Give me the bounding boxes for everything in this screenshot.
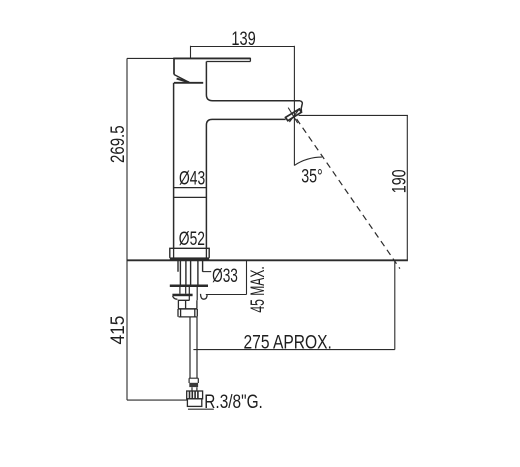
svg-text:45 MAX.: 45 MAX.	[247, 266, 269, 312]
supply pipe lines above washer	[191, 261, 198, 285]
stud lines below washer	[180, 287, 186, 294]
nipple upper block	[178, 300, 197, 309]
extension line 139 right / angle reference vertical	[293, 46, 295, 166]
flexible hose	[190, 317, 197, 378]
svg-text:269.5: 269.5	[106, 125, 128, 163]
spout tip step	[300, 101, 302, 112]
dimension 269.5 and 415 vertical line	[126, 58, 128, 400]
extension line 275 right	[394, 260, 396, 349]
water stream dashed line	[297, 119, 400, 269]
hose end nut skirt	[187, 399, 201, 407]
extension line 139 left	[190, 46, 192, 58]
35 degree angle arc	[294, 157, 322, 165]
hose collar	[189, 378, 198, 383]
hose lines below washer	[189, 287, 197, 300]
svg-text:Ø33: Ø33	[212, 265, 238, 287]
hose end nut upper (hatched)	[187, 391, 203, 399]
clamp bar left lip	[173, 296, 178, 299]
hose ferrule (hatched)	[189, 383, 198, 387]
svg-text:Ø52: Ø52	[179, 228, 205, 250]
svg-text:Ø43: Ø43	[179, 167, 205, 189]
column right edge and spout lower line	[206, 119, 285, 248]
svg-text:190: 190	[388, 169, 410, 193]
handle left edge	[173, 58, 175, 75]
aerator cross line 1	[288, 108, 298, 124]
counter deck line	[127, 259, 408, 261]
handle lever bottom	[206, 61, 250, 63]
leader line under R.3/8 label	[188, 408, 214, 410]
column joint line 1	[174, 187, 207, 189]
aerator cross line 2	[289, 108, 300, 122]
column left edge	[173, 83, 175, 249]
45 MAX bracket horizontal	[206, 294, 247, 296]
leader line for diameter 33	[203, 271, 212, 273]
svg-text:35°: 35°	[301, 165, 323, 187]
handle bottom diagonal	[174, 75, 189, 83]
hose neck	[192, 387, 197, 391]
handle lever right end	[249, 58, 251, 62]
dimension 275 line	[193, 349, 394, 351]
dimension 190 vertical line	[406, 115, 408, 260]
svg-text:139: 139	[231, 27, 255, 50]
flange inner verticals	[174, 248, 207, 258]
nut end block	[178, 309, 197, 317]
aerator	[286, 109, 302, 121]
handle wedge	[177, 79, 190, 83]
threaded shank inner / stud lines	[180, 261, 186, 285]
svg-text:R.3/8"G.: R.3/8"G.	[204, 390, 263, 412]
threaded shank outer	[178, 261, 203, 272]
svg-text:275 APROX.: 275 APROX.	[244, 331, 332, 353]
clamp right hook	[201, 294, 208, 299]
dimension 139 line	[191, 46, 295, 48]
extension line bottom to hose nut	[127, 399, 187, 401]
mounting washer	[170, 285, 208, 288]
extension line top to handle	[127, 57, 174, 59]
flange bottom dark band	[170, 257, 209, 260]
handle lever top	[174, 57, 251, 59]
body top under handle	[174, 82, 203, 84]
base flange	[170, 248, 209, 258]
column joint line 2	[174, 196, 207, 198]
spout block outline	[206, 62, 300, 101]
svg-text:415: 415	[106, 316, 128, 345]
45 MAX bracket vertical	[246, 260, 248, 294]
clamp bar	[172, 294, 192, 297]
extension line from aerator to 190	[299, 114, 408, 116]
